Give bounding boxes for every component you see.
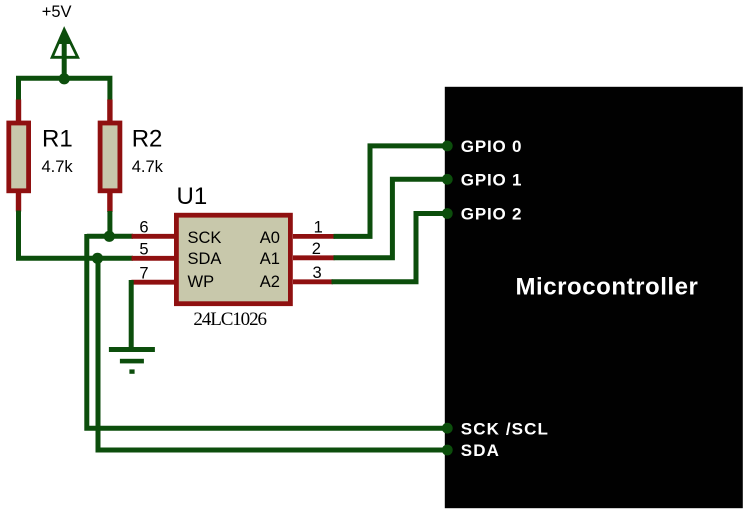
- svg-text:SDA: SDA: [188, 250, 222, 268]
- wire: R1 bottom to SDA net: [19, 211, 98, 259]
- wire: R1 top lead (red): [16, 100, 21, 123]
- wire: R2 top lead (red): [107, 100, 112, 123]
- svg-text:2: 2: [312, 240, 321, 258]
- microcontroller block: [445, 87, 743, 508]
- wire: SDA net horizontal (dot to pin 5): [97, 256, 133, 261]
- svg-text:R2: R2: [132, 126, 163, 153]
- node: SCK junction dot: [104, 231, 115, 242]
- node: dot at GPIO 1: [442, 174, 453, 185]
- pin 6 stub (red) of U1: [132, 234, 176, 239]
- wire: SCK net vertical down left side: [87, 234, 447, 428]
- svg-text:GPIO 2: GPIO 2: [461, 205, 523, 224]
- wire: A2 to GPIO 2: [332, 214, 448, 282]
- svg-text:SCK /SCL: SCK /SCL: [461, 419, 549, 438]
- resistor R1: [9, 123, 29, 191]
- svg-text:4.7k: 4.7k: [132, 158, 164, 176]
- svg-text:6: 6: [139, 219, 148, 237]
- svg-text:5: 5: [139, 241, 148, 259]
- node: dot at microcontroller SCK/SCL: [442, 423, 453, 434]
- pin 3 stub (red) of U1: [293, 279, 333, 284]
- svg-text:SCK: SCK: [188, 229, 222, 247]
- wire: R1 bottom lead (red): [16, 192, 21, 212]
- svg-text:WP: WP: [188, 273, 215, 291]
- node: dot at GPIO 2: [442, 208, 453, 219]
- resistor R2: [100, 123, 120, 191]
- pin 1 stub (red) of U1: [293, 234, 335, 239]
- svg-text:1: 1: [314, 219, 323, 237]
- pin 5 stub (red) of U1: [132, 256, 176, 261]
- node: dot at microcontroller SDA: [442, 445, 453, 456]
- svg-text:A2: A2: [260, 273, 280, 291]
- svg-text:SDA: SDA: [461, 441, 500, 460]
- wire: WP pin down to ground: [129, 280, 134, 349]
- svg-text:R1: R1: [42, 126, 73, 153]
- pin 7 stub (red) of U1: [131, 280, 176, 285]
- svg-text:GPIO 1: GPIO 1: [461, 170, 523, 189]
- wire: SCK net horizontal (dot to pin 6, and left arm): [87, 234, 133, 239]
- ground symbol: [109, 347, 155, 374]
- wire: A1 to GPIO 1: [334, 179, 448, 257]
- wire: R2 bottom lead (red): [107, 192, 112, 212]
- svg-text:24LC1026: 24LC1026: [193, 309, 266, 330]
- power symbol +5V arrow: [52, 28, 78, 79]
- svg-text:+5V: +5V: [42, 3, 72, 21]
- node: +5V junction dot: [59, 73, 70, 84]
- wire: +5V rail top horizontal with corners down to resistor leads: [19, 78, 110, 101]
- node: dot at GPIO 0: [442, 141, 453, 152]
- svg-text:A0: A0: [260, 229, 280, 247]
- svg-text:U1: U1: [177, 183, 208, 210]
- node: SDA junction dot: [92, 253, 103, 264]
- svg-text:4.7k: 4.7k: [42, 158, 74, 176]
- op-amp: none; IC U1 24LC1026 body: [176, 215, 290, 304]
- wire: R2 bottom to SCK junction: [107, 211, 112, 236]
- wire: A0 to GPIO 0: [334, 146, 448, 237]
- svg-text:Microcontroller: Microcontroller: [516, 273, 699, 300]
- svg-text:A1: A1: [260, 250, 280, 268]
- svg-text:7: 7: [139, 265, 148, 283]
- svg-text:3: 3: [313, 264, 322, 282]
- svg-text:GPIO 0: GPIO 0: [461, 137, 523, 156]
- pin 2 stub (red) of U1: [293, 255, 335, 260]
- wire: SDA net vertical down: [98, 256, 447, 450]
